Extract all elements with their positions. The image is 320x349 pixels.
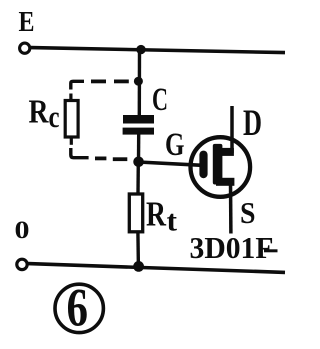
node top junction bbox=[136, 45, 145, 54]
terminal 0 bbox=[17, 259, 27, 269]
svg-text:S: S bbox=[240, 195, 256, 230]
wire dashed Rc branch top bbox=[71, 81, 129, 100]
transistor Q1 drain tap bbox=[221, 148, 234, 156]
svg-text:0: 0 bbox=[15, 217, 30, 244]
svg-text:c: c bbox=[49, 99, 60, 134]
capacitor C plate 2 bbox=[123, 128, 154, 135]
svg-text:3D01F: 3D01F bbox=[190, 230, 274, 265]
wire dashed Rc branch bottom bbox=[71, 137, 128, 159]
transistor Q1 MOSFET body circle bbox=[191, 137, 251, 197]
svg-text:E: E bbox=[19, 7, 35, 38]
wire gate lead bbox=[139, 162, 203, 165]
svg-text:R: R bbox=[29, 94, 49, 131]
wire vertical (top rail to capacitor) bbox=[138, 49, 142, 116]
svg-text:6: 6 bbox=[67, 278, 89, 338]
transistor Q1 channel bar bbox=[213, 144, 223, 185]
capacitor C plate 1 bbox=[123, 115, 154, 124]
svg-text:C: C bbox=[152, 82, 168, 118]
resistor Rc bbox=[65, 101, 78, 138]
wire vertical (resistor Rt to bottom rail) bbox=[136, 232, 140, 268]
svg-text:D: D bbox=[243, 103, 262, 144]
svg-text:R: R bbox=[146, 195, 167, 234]
svg-text:G: G bbox=[165, 127, 185, 163]
wire top rail bbox=[31, 48, 285, 53]
resistor Rc label bbox=[29, 94, 60, 135]
figure number 6 circle bbox=[55, 284, 103, 332]
wire drain lead bbox=[230, 106, 234, 153]
resistor Rt label bbox=[146, 195, 177, 238]
node bottom junction bbox=[133, 261, 144, 272]
wire vertical (capacitor to node G) bbox=[137, 134, 141, 162]
wire vertical (node G to resistor Rt) bbox=[136, 162, 140, 195]
wire source lead bbox=[229, 182, 233, 234]
transistor Q1 gate electrode bar bbox=[199, 151, 207, 179]
node G junction bbox=[133, 157, 144, 168]
node junction (dashed Rc top tap) bbox=[134, 77, 143, 86]
wire bottom rail bbox=[28, 264, 285, 273]
terminal E bbox=[20, 43, 30, 53]
part number 3D01F bbox=[190, 230, 278, 265]
resistor Rt bbox=[129, 194, 142, 232]
svg-text:t: t bbox=[167, 205, 178, 238]
transistor Q1 source tap bbox=[216, 178, 234, 186]
